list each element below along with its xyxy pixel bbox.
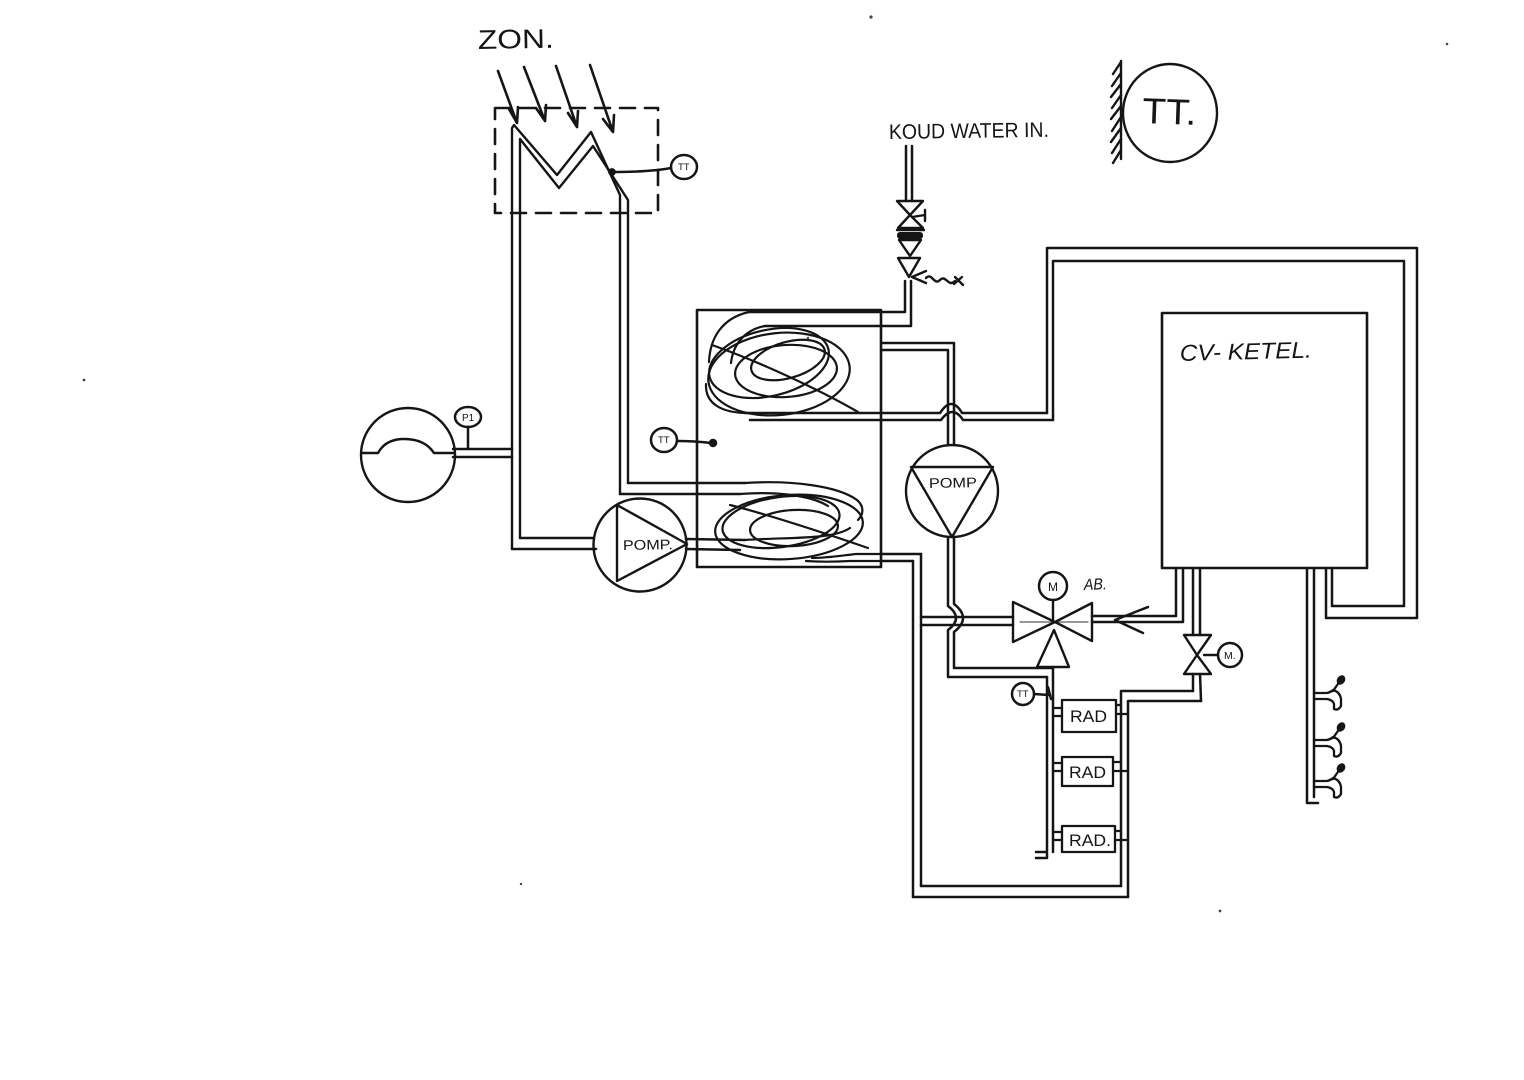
2-way motor valve (1184, 635, 1218, 674)
pipe tank bottom to down pipe (881, 554, 921, 561)
pipe pump to heat exchanger coil (bottom) (686, 539, 745, 550)
room thermostat TT (1123, 64, 1217, 162)
TT sensor at radiator supply (1012, 683, 1051, 705)
temperature sensor TT at tank (651, 428, 716, 452)
expansion vessel (361, 408, 455, 502)
scan specks (83, 15, 1449, 912)
bottom return loop (913, 886, 1128, 897)
pipe tank to pump (right) (881, 343, 954, 445)
cold water pipe into tank (749, 281, 911, 326)
pressure gauge P1 (455, 407, 481, 449)
hot water pipe tank to loop (with hop) (745, 404, 1053, 420)
cold water pipe from top (906, 146, 912, 201)
radiator 1 (1053, 700, 1128, 732)
boiler supply pipe with arrow (1092, 568, 1183, 633)
hot tap standpipe (1307, 568, 1318, 803)
solar pump POMP (left) (594, 499, 688, 592)
bottom coil (713, 482, 881, 564)
motor M of 2-way valve (1218, 643, 1242, 667)
svg-text:M: M (1048, 580, 1058, 594)
temperature sensor TT at collector (609, 155, 697, 179)
svg-text:RAD: RAD (1069, 764, 1106, 782)
svg-text:KOUD WATER IN.: KOUD WATER IN. (889, 119, 1049, 144)
pipe to 3-way valve (left side) (921, 617, 1013, 625)
pipe return riser to 2-way valve (1193, 674, 1201, 701)
svg-text:TT: TT (658, 435, 670, 446)
svg-text:TT.: TT. (1142, 90, 1197, 133)
CV-KETEL label (1179, 337, 1312, 366)
radiator 3 (1053, 826, 1128, 852)
tap 1 (1314, 674, 1347, 710)
motor M of 3-way valve (1039, 572, 1067, 600)
pipe collector left riser to pump (512, 538, 596, 549)
safety relief valve with discharge squiggle (898, 258, 963, 285)
solar collector dashed enclosure (495, 108, 658, 213)
big heating loop around boiler (1047, 248, 1417, 618)
svg-text:M.: M. (1224, 650, 1236, 662)
top coil (702, 312, 858, 422)
3-way mixing valve (1013, 600, 1092, 667)
svg-text:CV- KETEL.: CV- KETEL. (1179, 337, 1312, 366)
svg-text:TT: TT (678, 162, 690, 173)
radiator 2 (1053, 757, 1128, 786)
radiator return riser (1121, 691, 1201, 897)
svg-text:TT: TT (1017, 689, 1029, 700)
pipe collector right riser to heat exchanger (620, 483, 745, 494)
sun arrows (498, 65, 614, 132)
pipe 2-way valve to boiler (1193, 568, 1200, 635)
wall with hatching (1111, 61, 1121, 163)
tap 2 (1314, 721, 1347, 757)
expansion vessel pipe (453, 449, 512, 457)
KOUD WATER IN label (889, 119, 1049, 144)
heat exchanger / storage tank (697, 310, 881, 567)
AB label (1083, 576, 1107, 594)
svg-text:RAD.: RAD. (1069, 832, 1111, 850)
shut-off valve (bowtie) (897, 201, 925, 228)
DHW pump POMP (right) (906, 445, 998, 537)
check valve (triangle with bar) (897, 230, 924, 256)
svg-text:POMP: POMP (929, 474, 977, 491)
CV boiler (1162, 313, 1367, 568)
radiator supply pipe (1036, 668, 1053, 858)
svg-text:P1: P1 (462, 413, 475, 424)
solar collector absorber (M shape, double line) (512, 125, 628, 549)
svg-text:AB.: AB. (1083, 576, 1107, 594)
tap 3 (1314, 762, 1347, 798)
big return down pipe (left) (913, 554, 921, 897)
label ZON (sun) (478, 24, 555, 55)
svg-text:POMP.: POMP. (623, 536, 673, 553)
svg-text:ZON.: ZON. (478, 24, 555, 55)
pipe pump down with hop and to radiator supply (948, 537, 1053, 677)
svg-text:RAD: RAD (1070, 708, 1107, 726)
